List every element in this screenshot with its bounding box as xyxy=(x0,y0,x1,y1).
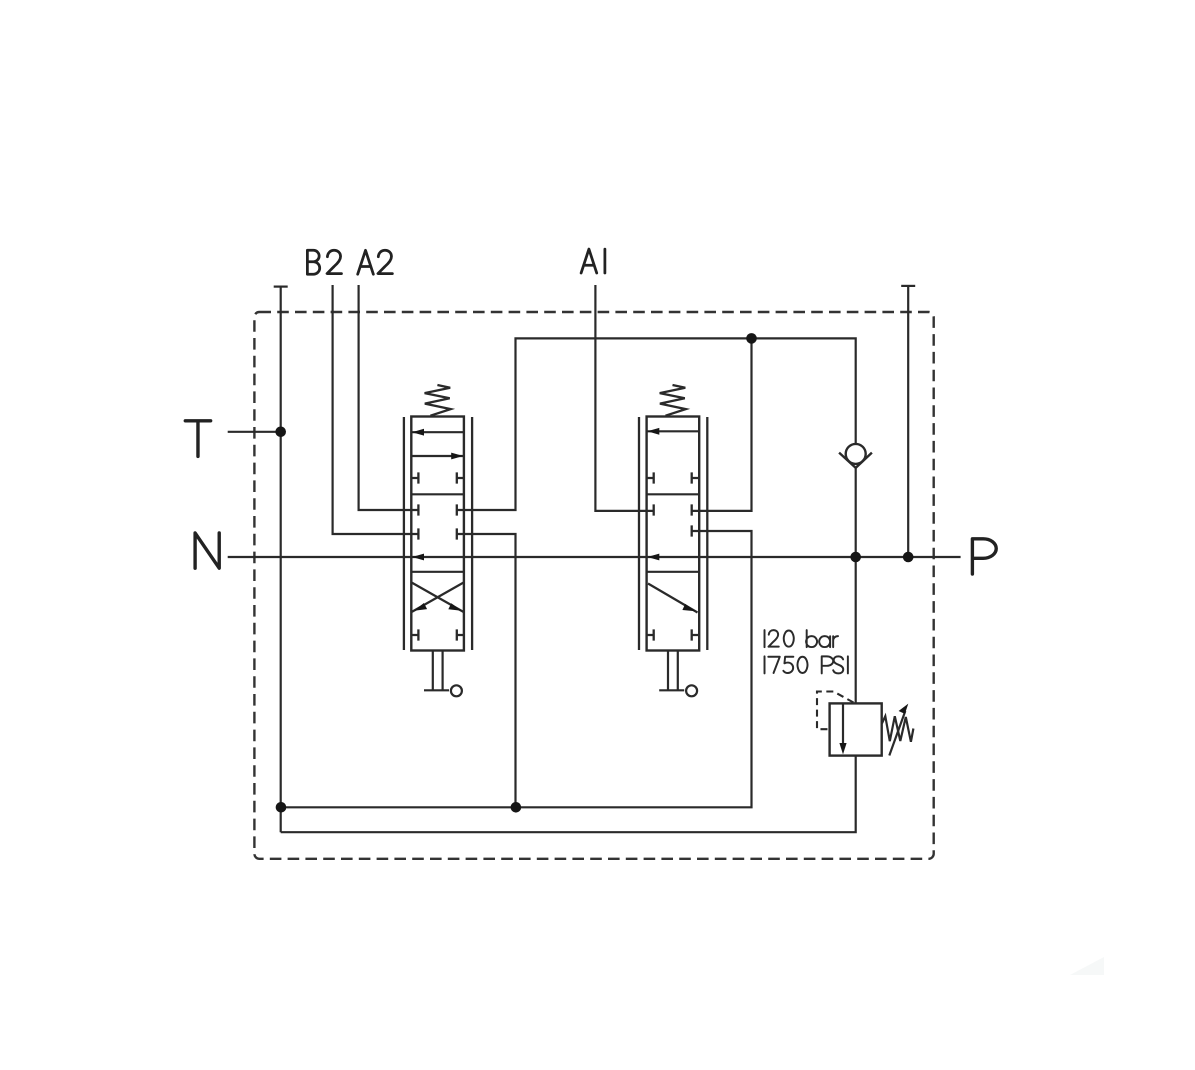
valve V1 cross arrows xyxy=(412,583,464,613)
relief valve RV1 adjustment arrow shaft xyxy=(889,711,905,756)
valve V1 actuator roller xyxy=(451,685,462,696)
wire check valve to N junction xyxy=(855,468,857,704)
valve V2 division lines xyxy=(647,494,700,572)
wire top pressure link xyxy=(457,338,856,510)
valve V1 arrowhead flow path 1 xyxy=(412,429,424,436)
wire right valve right A port xyxy=(692,338,752,511)
valve V1 port bars xyxy=(411,472,464,640)
valve V2 (right 3-position spool valve) xyxy=(639,385,707,696)
value label 1750 PSI xyxy=(765,656,848,673)
valve V2 top arrow xyxy=(647,430,700,432)
enclosure dashed boundary (manifold) xyxy=(254,312,933,859)
junction dot top line xyxy=(746,333,757,344)
wire T lead xyxy=(228,431,281,433)
valve V1 body box xyxy=(411,417,464,651)
wire B2 port line xyxy=(333,285,419,534)
valve V1 top arrows xyxy=(411,432,464,456)
relief valve RV1 body xyxy=(830,703,882,755)
valve V2 diagonal arrow xyxy=(648,584,698,613)
valve V1 left rail xyxy=(403,417,405,650)
relief valve RV1 adjustment arrowhead xyxy=(899,704,909,714)
wire A2 port line xyxy=(359,285,419,510)
valve V1 actuator stem xyxy=(424,651,449,691)
valve V2 actuator roller xyxy=(686,685,697,696)
wire relief return line xyxy=(281,756,856,833)
valve V2 body box xyxy=(647,417,700,651)
label T xyxy=(185,421,210,457)
check valve CV1 seat xyxy=(839,453,872,468)
valve V1 (left 3-position spool valve) xyxy=(404,385,472,696)
valve V2 arrowhead N path xyxy=(647,554,659,561)
valve V2 actuator stem xyxy=(659,651,684,691)
valve V2 arrowhead diagonal path xyxy=(682,604,695,611)
label N xyxy=(195,533,219,568)
valve V1 arrowhead cross path right xyxy=(448,603,461,611)
relief valve RV1 pilot dashed line xyxy=(817,692,854,730)
junction dot N P stub xyxy=(903,552,914,563)
wire P stub vertical xyxy=(907,286,909,557)
wire N line xyxy=(228,556,961,558)
wire tank return line xyxy=(281,531,752,807)
relief valve RV1 flow arrowhead xyxy=(839,743,846,754)
label A2 xyxy=(358,250,393,274)
valve V2 spring xyxy=(660,385,686,416)
main wires group xyxy=(228,285,961,832)
faint corner smudge xyxy=(1070,957,1104,975)
wire A1 port line xyxy=(595,285,653,511)
port stub P crossbar xyxy=(901,285,915,287)
junction dot tank rail xyxy=(276,802,287,813)
valve V1 spring xyxy=(425,385,451,416)
relief valve RV1 spring xyxy=(882,716,914,742)
relief valve RV1 internal flow line xyxy=(842,703,844,745)
check valve CV1 ball xyxy=(846,444,866,464)
valve V1 arrowhead N path xyxy=(412,554,424,561)
valve V2 arrowhead flow path 1 xyxy=(647,428,659,435)
valve V1 right rail xyxy=(471,417,473,650)
value label 120 bar xyxy=(765,630,838,647)
valve V2 port bars xyxy=(647,472,700,640)
T rail vertical wire xyxy=(280,287,282,833)
relief valve RV1 xyxy=(817,692,913,756)
valve V1 arrowhead flow path 2 xyxy=(451,453,463,460)
valve V1 arrowhead cross path left xyxy=(414,603,427,611)
label P xyxy=(972,539,996,574)
port stub T crossbar xyxy=(274,286,288,288)
label A1 xyxy=(581,249,605,273)
junction dot N check valve xyxy=(850,552,861,563)
junction dot tank mid xyxy=(511,802,522,813)
label B2 xyxy=(307,250,341,274)
valve V1 division lines xyxy=(411,494,464,572)
junction dot T xyxy=(275,427,286,438)
wire left valve B return drop xyxy=(457,534,516,807)
valve V2 right rail xyxy=(706,417,708,650)
valve V2 left rail xyxy=(638,417,640,650)
